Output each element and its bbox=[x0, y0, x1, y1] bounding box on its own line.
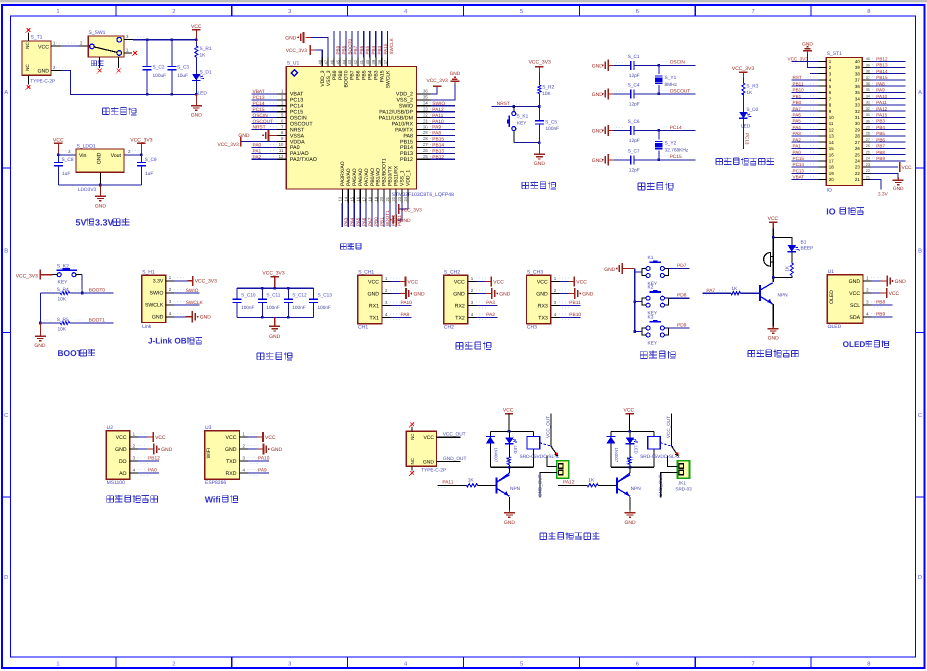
svg-text:PA11: PA11 bbox=[442, 480, 453, 486]
svg-text:RX3: RX3 bbox=[538, 303, 548, 309]
svg-text:10: 10 bbox=[279, 142, 284, 147]
svg-text:PD8: PD8 bbox=[677, 293, 687, 299]
svg-text:MS1100: MS1100 bbox=[107, 480, 125, 486]
svg-text:PC14: PC14 bbox=[670, 125, 682, 131]
svg-text:NC: NC bbox=[25, 42, 30, 49]
svg-text:7: 7 bbox=[751, 661, 754, 667]
svg-text:10K: 10K bbox=[58, 297, 67, 303]
svg-text:46: 46 bbox=[329, 59, 334, 64]
svg-text:RX1: RX1 bbox=[369, 303, 379, 309]
svg-text:S_U1: S_U1 bbox=[287, 61, 300, 67]
svg-text:VCC_3V3: VCC_3V3 bbox=[262, 270, 284, 276]
svg-text:S_H1: S_H1 bbox=[142, 269, 155, 275]
svg-text:PA8: PA8 bbox=[876, 81, 885, 86]
svg-text:PA10: PA10 bbox=[432, 119, 444, 125]
svg-text:PA10: PA10 bbox=[401, 300, 413, 306]
svg-text:GND: GND bbox=[604, 267, 616, 273]
svg-text:U3: U3 bbox=[205, 425, 212, 431]
svg-text:PB12: PB12 bbox=[148, 456, 160, 462]
svg-text:LDO3V3: LDO3V3 bbox=[78, 187, 97, 193]
svg-text:GND: GND bbox=[768, 336, 780, 342]
svg-text:K1: K1 bbox=[648, 255, 654, 261]
svg-text:CH2: CH2 bbox=[444, 324, 454, 330]
svg-text:TX2: TX2 bbox=[455, 315, 465, 321]
svg-text:39: 39 bbox=[866, 63, 870, 67]
svg-text:KEY: KEY bbox=[517, 120, 527, 126]
svg-text:S_C4: S_C4 bbox=[628, 82, 640, 88]
svg-text:SWIO: SWIO bbox=[150, 291, 164, 297]
svg-text:PA1: PA1 bbox=[253, 149, 262, 155]
svg-text:6: 6 bbox=[636, 8, 639, 15]
svg-text:S_R1: S_R1 bbox=[200, 46, 212, 52]
svg-text:NC: NC bbox=[410, 458, 415, 464]
svg-text:33: 33 bbox=[866, 101, 870, 105]
svg-text:41: 41 bbox=[359, 59, 364, 64]
svg-text:GND: GND bbox=[285, 35, 297, 41]
svg-text:GND: GND bbox=[802, 41, 813, 47]
svg-text:GND: GND bbox=[37, 69, 49, 75]
svg-text:3: 3 bbox=[288, 8, 291, 15]
svg-text:S_R3: S_R3 bbox=[746, 84, 758, 90]
svg-text:PB0: PB0 bbox=[793, 100, 802, 105]
svg-text:21: 21 bbox=[385, 196, 390, 201]
svg-text:1K: 1K bbox=[200, 53, 207, 59]
svg-text:S_D2: S_D2 bbox=[746, 107, 758, 113]
svg-text:17: 17 bbox=[361, 196, 366, 201]
svg-text:GND: GND bbox=[96, 152, 102, 164]
svg-text:VCC: VCC bbox=[576, 279, 587, 285]
svg-text:39: 39 bbox=[855, 65, 860, 70]
svg-text:12pF: 12pF bbox=[629, 138, 640, 144]
svg-text:LED: LED bbox=[198, 91, 208, 97]
svg-text:35: 35 bbox=[866, 88, 870, 92]
svg-text:PA4: PA4 bbox=[793, 125, 802, 130]
svg-text:SRD-05VDC-SL-C: SRD-05VDC-SL-C bbox=[640, 454, 680, 460]
svg-text:20: 20 bbox=[829, 177, 834, 182]
svg-text:VCC_OUT: VCC_OUT bbox=[443, 432, 466, 438]
svg-text:SWIO: SWIO bbox=[432, 101, 445, 107]
svg-text:PA3: PA3 bbox=[793, 131, 802, 136]
svg-text:S_C13: S_C13 bbox=[318, 293, 333, 298]
svg-text:16: 16 bbox=[356, 196, 361, 201]
svg-text:GND: GND bbox=[271, 447, 283, 453]
svg-text:S_C11: S_C11 bbox=[266, 293, 280, 298]
svg-text:AO: AO bbox=[119, 471, 127, 477]
svg-text:PB14: PB14 bbox=[432, 143, 444, 149]
svg-text:VCC: VCC bbox=[368, 279, 379, 285]
svg-text:CH1: CH1 bbox=[358, 324, 368, 330]
svg-text:TX1: TX1 bbox=[369, 315, 379, 321]
svg-text:1K: 1K bbox=[626, 457, 631, 462]
svg-text:PD7: PD7 bbox=[677, 263, 687, 269]
svg-text:24: 24 bbox=[866, 157, 870, 161]
svg-text:10uF: 10uF bbox=[177, 73, 188, 79]
svg-text:VCC: VCC bbox=[155, 435, 166, 441]
svg-text:S_C3: S_C3 bbox=[177, 65, 189, 71]
svg-text:VCC: VCC bbox=[889, 291, 900, 297]
svg-text:GND: GND bbox=[592, 64, 604, 70]
svg-text:3.3V: 3.3V bbox=[878, 191, 889, 197]
svg-text:B1: B1 bbox=[801, 239, 807, 245]
svg-text:S_CH1: S_CH1 bbox=[358, 269, 374, 275]
svg-text:NPN: NPN bbox=[510, 486, 521, 492]
svg-text:VBAT: VBAT bbox=[793, 175, 805, 180]
svg-text:PC13: PC13 bbox=[745, 133, 750, 145]
svg-text:NRST: NRST bbox=[253, 125, 266, 131]
svg-text:37: 37 bbox=[855, 78, 860, 83]
svg-text:OSCIN: OSCIN bbox=[670, 60, 686, 66]
svg-text:Link: Link bbox=[142, 324, 152, 330]
svg-text:PC14: PC14 bbox=[253, 101, 265, 107]
svg-text:36: 36 bbox=[855, 84, 860, 89]
svg-text:PA15: PA15 bbox=[876, 113, 887, 118]
svg-text:NC: NC bbox=[25, 64, 30, 71]
svg-text:PA11: PA11 bbox=[432, 113, 443, 119]
svg-text:S_LDO1: S_LDO1 bbox=[77, 144, 96, 150]
svg-text:OSCIN: OSCIN bbox=[253, 113, 269, 119]
svg-text:U1: U1 bbox=[828, 269, 835, 275]
svg-text:PA12: PA12 bbox=[876, 106, 887, 111]
svg-text:PA12: PA12 bbox=[563, 480, 575, 486]
svg-text:A: A bbox=[918, 90, 922, 96]
svg-text:40: 40 bbox=[855, 59, 860, 64]
svg-text:SWCLK: SWCLK bbox=[389, 37, 394, 54]
svg-text:PB12: PB12 bbox=[432, 154, 444, 160]
svg-text:GND_OUT: GND_OUT bbox=[538, 474, 543, 497]
svg-text:PB15: PB15 bbox=[876, 75, 888, 80]
svg-text:1K: 1K bbox=[506, 457, 511, 462]
svg-text:14: 14 bbox=[344, 196, 349, 201]
svg-text:VCC_3V3: VCC_3V3 bbox=[427, 78, 449, 84]
svg-text:VCC_OUT: VCC_OUT bbox=[545, 416, 550, 438]
svg-text:GND: GND bbox=[534, 161, 546, 167]
svg-text:J-Link OB: J-Link OB bbox=[148, 337, 187, 346]
svg-text:S_Y1: S_Y1 bbox=[665, 75, 677, 81]
svg-text:2: 2 bbox=[172, 660, 175, 667]
svg-text:PA2: PA2 bbox=[486, 312, 495, 318]
svg-text:10K: 10K bbox=[58, 327, 67, 333]
svg-text:GND: GND bbox=[200, 315, 212, 321]
svg-text:PA9: PA9 bbox=[876, 88, 885, 93]
svg-text:8: 8 bbox=[867, 8, 870, 15]
svg-text:VCC_3V3: VCC_3V3 bbox=[286, 48, 308, 54]
svg-text:30: 30 bbox=[855, 121, 860, 126]
svg-text:PB8: PB8 bbox=[876, 300, 885, 306]
svg-text:TX3: TX3 bbox=[538, 315, 548, 321]
svg-text:VCC: VCC bbox=[38, 44, 49, 50]
svg-text:22: 22 bbox=[855, 171, 860, 176]
svg-text:RST: RST bbox=[793, 75, 802, 80]
svg-text:24: 24 bbox=[855, 159, 860, 164]
svg-text:100nF: 100nF bbox=[546, 126, 560, 132]
svg-text:25: 25 bbox=[866, 150, 870, 154]
svg-text:S_R4: S_R4 bbox=[57, 287, 69, 293]
svg-text:1N4007: 1N4007 bbox=[614, 448, 619, 463]
svg-text:22: 22 bbox=[866, 169, 870, 173]
svg-text:PC15: PC15 bbox=[253, 107, 265, 113]
svg-text:B: B bbox=[4, 249, 8, 255]
svg-text:34: 34 bbox=[855, 96, 860, 101]
svg-text:PC15: PC15 bbox=[793, 156, 805, 161]
svg-text:SWIO: SWIO bbox=[186, 288, 199, 294]
svg-text:GND: GND bbox=[191, 113, 203, 119]
svg-text:38: 38 bbox=[866, 70, 870, 74]
svg-text:PB10: PB10 bbox=[793, 88, 805, 93]
svg-text:30: 30 bbox=[866, 119, 870, 123]
svg-text:PC15: PC15 bbox=[670, 154, 682, 160]
svg-text:36: 36 bbox=[423, 89, 428, 94]
svg-text:SWCLK: SWCLK bbox=[385, 70, 391, 88]
svg-text:31: 31 bbox=[855, 115, 860, 120]
svg-text:17: 17 bbox=[829, 159, 834, 164]
svg-text:VCC: VCC bbox=[265, 435, 276, 441]
svg-text:NC: NC bbox=[410, 434, 415, 440]
svg-text:PA6: PA6 bbox=[793, 113, 802, 118]
svg-text:S_C8: S_C8 bbox=[62, 157, 74, 163]
svg-text:31: 31 bbox=[866, 113, 870, 117]
svg-text:TXD: TXD bbox=[226, 459, 237, 465]
svg-text:GND_OUT: GND_OUT bbox=[658, 474, 663, 497]
svg-text:GND: GND bbox=[592, 158, 604, 164]
svg-text:S_C6: S_C6 bbox=[628, 119, 640, 125]
svg-text:PB13: PB13 bbox=[432, 149, 444, 155]
svg-text:12: 12 bbox=[829, 127, 834, 132]
svg-text:32.768KHz: 32.768KHz bbox=[665, 148, 689, 154]
svg-text:32: 32 bbox=[866, 107, 870, 111]
svg-text:21: 21 bbox=[855, 177, 860, 182]
svg-text:PB14: PB14 bbox=[876, 69, 888, 74]
svg-text:PA8: PA8 bbox=[432, 131, 441, 137]
svg-text:13: 13 bbox=[829, 134, 834, 139]
svg-text:KEY: KEY bbox=[648, 341, 658, 347]
svg-text:PA10: PA10 bbox=[876, 94, 887, 99]
svg-text:PA2/TX/AO: PA2/TX/AO bbox=[290, 157, 317, 163]
svg-text:NPN: NPN bbox=[778, 292, 789, 298]
svg-text:S_C5: S_C5 bbox=[545, 119, 557, 125]
svg-text:18: 18 bbox=[367, 196, 372, 201]
svg-text:26: 26 bbox=[866, 144, 870, 148]
svg-text:VCC: VCC bbox=[768, 216, 779, 222]
svg-text:PB6: PB6 bbox=[876, 137, 885, 142]
svg-text:K3: K3 bbox=[648, 315, 654, 321]
svg-text:A: A bbox=[4, 90, 8, 96]
svg-text:VCC_3V3: VCC_3V3 bbox=[16, 273, 38, 279]
svg-text:35: 35 bbox=[423, 95, 428, 100]
svg-text:RX2: RX2 bbox=[455, 303, 465, 309]
svg-text:PB13: PB13 bbox=[876, 63, 888, 68]
svg-text:45: 45 bbox=[335, 59, 340, 64]
svg-text:PB1: PB1 bbox=[793, 94, 802, 99]
svg-text:S_CH2: S_CH2 bbox=[444, 269, 460, 275]
svg-text:12pF: 12pF bbox=[629, 73, 640, 79]
svg-text:VCC_3V3: VCC_3V3 bbox=[218, 142, 240, 148]
svg-text:PA1: PA1 bbox=[793, 144, 802, 149]
svg-text:8MHz: 8MHz bbox=[665, 82, 678, 88]
svg-text:PB5: PB5 bbox=[876, 131, 885, 136]
svg-text:27: 27 bbox=[866, 138, 870, 142]
svg-text:WIFI: WIFI bbox=[206, 448, 212, 459]
svg-text:S_C2: S_C2 bbox=[153, 65, 165, 71]
svg-text:GND: GND bbox=[849, 279, 861, 285]
svg-text:D: D bbox=[918, 575, 922, 581]
svg-text:1: 1 bbox=[56, 661, 59, 667]
svg-text:13: 13 bbox=[338, 196, 343, 201]
svg-text:SRD-05VDC-SL-C: SRD-05VDC-SL-C bbox=[520, 454, 560, 460]
svg-text:S_K1: S_K1 bbox=[517, 113, 529, 119]
svg-text:11: 11 bbox=[279, 148, 284, 153]
svg-text:S_T1: S_T1 bbox=[31, 35, 43, 41]
svg-text:NPN: NPN bbox=[631, 486, 642, 492]
svg-text:34: 34 bbox=[866, 94, 870, 98]
svg-text:VCC: VCC bbox=[408, 279, 419, 285]
svg-text:VCC_3V3: VCC_3V3 bbox=[788, 57, 809, 62]
svg-text:8: 8 bbox=[867, 660, 870, 667]
svg-text:GND: GND bbox=[152, 315, 164, 321]
svg-text:VCC_3V3: VCC_3V3 bbox=[529, 59, 551, 65]
svg-text:LED: LED bbox=[513, 446, 518, 454]
svg-text:PA10: PA10 bbox=[258, 456, 270, 462]
svg-text:VCC: VCC bbox=[902, 165, 913, 171]
svg-text:43: 43 bbox=[347, 59, 352, 64]
svg-text:GND: GND bbox=[893, 186, 904, 192]
svg-text:VCC_3V3: VCC_3V3 bbox=[732, 66, 754, 72]
svg-text:VCC: VCC bbox=[116, 435, 127, 441]
svg-text:S_R2: S_R2 bbox=[542, 85, 554, 91]
svg-text:C: C bbox=[918, 412, 922, 419]
svg-text:1K: 1K bbox=[588, 478, 595, 484]
svg-text:PA7: PA7 bbox=[706, 288, 715, 294]
svg-text:BEEP: BEEP bbox=[801, 245, 814, 251]
svg-text:PB7: PB7 bbox=[876, 144, 885, 149]
svg-text:PB4: PB4 bbox=[876, 125, 885, 130]
svg-text:GND: GND bbox=[536, 291, 548, 297]
svg-text:10K: 10K bbox=[542, 91, 551, 97]
svg-text:5: 5 bbox=[520, 661, 523, 667]
svg-text:27: 27 bbox=[855, 140, 860, 145]
svg-text:PB3: PB3 bbox=[876, 119, 885, 124]
svg-text:GND: GND bbox=[115, 447, 127, 453]
svg-text:GND: GND bbox=[367, 291, 379, 297]
svg-text:GND: GND bbox=[592, 92, 604, 98]
svg-text:3.3V: 3.3V bbox=[153, 279, 164, 285]
svg-text:DO: DO bbox=[119, 459, 127, 465]
svg-text:Wifi: Wifi bbox=[205, 494, 221, 504]
svg-text:S_CH3: S_CH3 bbox=[527, 269, 543, 275]
svg-text:C: C bbox=[4, 412, 8, 419]
svg-text:29: 29 bbox=[855, 127, 860, 132]
svg-text:1K: 1K bbox=[785, 265, 790, 272]
svg-text:1K: 1K bbox=[731, 286, 738, 292]
svg-text:VCC: VCC bbox=[624, 408, 635, 414]
svg-text:PB8: PB8 bbox=[876, 150, 885, 155]
svg-text:PA9: PA9 bbox=[432, 125, 441, 131]
svg-text:28: 28 bbox=[855, 134, 860, 139]
svg-text:33: 33 bbox=[855, 103, 860, 108]
svg-text:VCC: VCC bbox=[226, 435, 237, 441]
svg-text:1: 1 bbox=[56, 9, 59, 15]
svg-text:PA0: PA0 bbox=[793, 150, 802, 155]
svg-text:44: 44 bbox=[341, 59, 346, 64]
svg-text:12pF: 12pF bbox=[629, 167, 640, 173]
svg-text:GND: GND bbox=[624, 520, 636, 526]
svg-text:23: 23 bbox=[397, 196, 402, 201]
svg-text:2: 2 bbox=[172, 8, 175, 15]
svg-text:ESP8266: ESP8266 bbox=[205, 480, 226, 486]
svg-text:OSCOUT: OSCOUT bbox=[253, 119, 274, 125]
svg-text:PA11: PA11 bbox=[876, 100, 887, 105]
svg-text:100nF: 100nF bbox=[292, 305, 305, 310]
svg-text:VBAT: VBAT bbox=[253, 89, 265, 95]
svg-text:S_C9: S_C9 bbox=[145, 157, 157, 163]
svg-text:Vin: Vin bbox=[79, 153, 87, 159]
svg-text:OLED: OLED bbox=[843, 340, 866, 349]
svg-text:15: 15 bbox=[829, 146, 834, 151]
svg-text:B: B bbox=[918, 249, 922, 255]
svg-text:S_C1: S_C1 bbox=[628, 54, 640, 60]
svg-text:PA9: PA9 bbox=[401, 312, 410, 318]
svg-text:BOOT: BOOT bbox=[58, 348, 83, 358]
svg-text:CH3: CH3 bbox=[527, 324, 537, 330]
svg-text:PA2: PA2 bbox=[253, 154, 262, 160]
svg-text:SWCLK: SWCLK bbox=[145, 303, 164, 309]
svg-text:GND: GND bbox=[423, 459, 435, 465]
svg-text:42: 42 bbox=[353, 59, 358, 64]
svg-text:GND: GND bbox=[504, 520, 516, 526]
svg-text:PD9: PD9 bbox=[677, 322, 687, 328]
svg-text:SCL: SCL bbox=[850, 303, 860, 309]
svg-text:7: 7 bbox=[751, 9, 754, 15]
svg-text:NRST: NRST bbox=[497, 101, 510, 107]
svg-text:GND: GND bbox=[269, 334, 281, 340]
svg-text:1uF: 1uF bbox=[62, 171, 70, 177]
svg-text:PB9: PB9 bbox=[876, 312, 885, 318]
svg-text:JK1: JK1 bbox=[678, 480, 686, 485]
svg-text:VCC: VCC bbox=[493, 279, 504, 285]
svg-text:VCC_3V3: VCC_3V3 bbox=[195, 279, 217, 285]
svg-text:22: 22 bbox=[391, 196, 396, 201]
svg-text:47: 47 bbox=[323, 59, 328, 64]
svg-text:GND: GND bbox=[225, 447, 237, 453]
svg-text:38: 38 bbox=[377, 59, 382, 64]
svg-text:GND: GND bbox=[895, 279, 907, 285]
svg-text:PC14: PC14 bbox=[793, 162, 805, 167]
svg-text:S_C7: S_C7 bbox=[628, 148, 640, 154]
svg-text:14: 14 bbox=[829, 140, 834, 145]
svg-text:PB10: PB10 bbox=[569, 312, 581, 318]
svg-text:37: 37 bbox=[383, 59, 388, 64]
svg-text:10: 10 bbox=[829, 115, 834, 120]
svg-text:6: 6 bbox=[636, 660, 639, 667]
svg-text:12: 12 bbox=[279, 154, 284, 159]
svg-text:S_SW1: S_SW1 bbox=[89, 30, 106, 36]
svg-text:KEY: KEY bbox=[58, 279, 69, 285]
svg-text:VCC: VCC bbox=[454, 279, 465, 285]
svg-text:5: 5 bbox=[520, 9, 523, 15]
svg-text:GND: GND bbox=[400, 218, 412, 224]
svg-text:VCC: VCC bbox=[849, 291, 860, 297]
svg-text:PB11: PB11 bbox=[569, 300, 581, 306]
svg-text:28: 28 bbox=[866, 132, 870, 136]
svg-text:K2: K2 bbox=[648, 285, 654, 291]
svg-text:35: 35 bbox=[855, 90, 860, 95]
svg-text:100nF: 100nF bbox=[318, 305, 331, 310]
svg-text:D: D bbox=[4, 575, 8, 581]
svg-text:PA9: PA9 bbox=[258, 468, 267, 474]
svg-text:SWCLK: SWCLK bbox=[186, 300, 204, 306]
svg-text:GND: GND bbox=[453, 291, 465, 297]
svg-text:VCC: VCC bbox=[503, 408, 514, 414]
svg-text:48: 48 bbox=[318, 59, 323, 64]
